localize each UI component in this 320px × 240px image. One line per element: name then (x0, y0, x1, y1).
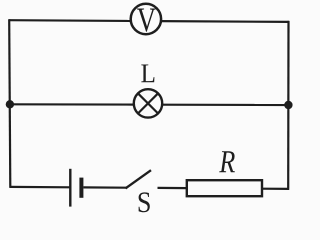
lamp L (134, 65, 162, 118)
wire top-left (9, 19, 132, 22)
node junction right (284, 101, 292, 109)
node junction left (6, 100, 14, 108)
wire right rail (287, 21, 289, 190)
wire bottom-left (10, 186, 70, 189)
wire switch-resistor (158, 187, 188, 189)
wire middle-left (10, 103, 135, 105)
wire resistor-right (262, 188, 289, 190)
wire battery-switch (83, 186, 126, 189)
switch S (126, 170, 152, 212)
wire middle-right (161, 104, 288, 107)
wire top-right (161, 20, 290, 23)
resistor R (187, 151, 262, 196)
wire left rail (9, 19, 10, 188)
voltmeter V1 (131, 4, 161, 34)
battery B1 (70, 169, 81, 207)
